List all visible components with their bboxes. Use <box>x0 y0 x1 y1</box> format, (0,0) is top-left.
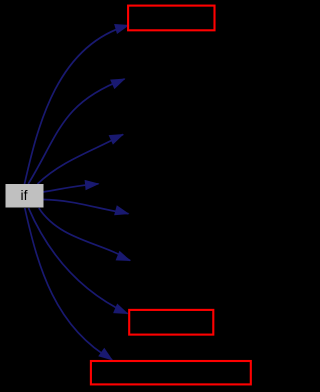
arrowhead if->nodeB <box>109 134 124 145</box>
wire edge if->box1 <box>25 25 129 184</box>
arrowhead if->nodeD <box>114 205 129 215</box>
wire edge if->box2 <box>29 208 128 314</box>
wire edge if->nodeC <box>43 184 99 192</box>
node box1 (red bordered callee) <box>128 6 214 31</box>
arrowhead if->box1 <box>114 24 129 34</box>
arrowhead if->nodeE <box>116 251 131 261</box>
wire edge if->nodeB <box>38 134 124 184</box>
wire edge if->nodeE <box>39 208 130 261</box>
arrowhead if->box2 <box>113 304 128 315</box>
node box3 (red bordered callee) <box>91 361 251 384</box>
wire edge if->nodeA <box>28 79 124 184</box>
arrowhead if->box3 <box>98 348 113 361</box>
arrowhead if->nodeA <box>110 79 125 90</box>
arrowhead if->nodeC <box>85 180 100 190</box>
node box2 (red bordered callee) <box>129 310 213 335</box>
wire edge if->box3 <box>25 208 112 360</box>
wire edge if->nodeD <box>43 200 129 214</box>
svg-text:if: if <box>21 187 28 203</box>
node if <box>6 184 44 208</box>
